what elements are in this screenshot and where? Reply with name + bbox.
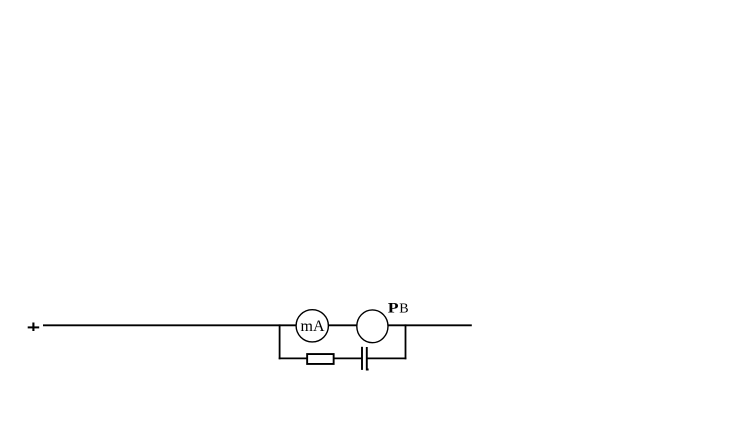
wire: from PB meter through node B to output [389, 324, 472, 326]
svg-text:B: B [399, 302, 408, 317]
resistor R [307, 354, 334, 364]
capacitor C: left plate [361, 347, 363, 370]
wire: bottom branch left segment to resistor [279, 357, 307, 359]
milliammeter mA [296, 310, 328, 342]
svg-text:P: P [388, 299, 399, 316]
label PB [388, 299, 409, 317]
terminal + (positive input) [28, 323, 40, 332]
meter PB [357, 310, 388, 343]
wire: main horizontal from + terminal through node A to mA meter [43, 324, 296, 326]
wire: bottom branch between resistor and capacitor [334, 357, 361, 359]
wire between mA meter and PB meter [329, 324, 357, 326]
wire: left branch vertical (node A down) [279, 324, 281, 359]
wire: right branch vertical (node B down) [405, 324, 407, 359]
capacitor C: right plate [367, 347, 369, 370]
wire: bottom branch right segment from capacitor to node B [367, 357, 407, 359]
svg-text:mA: mA [301, 318, 325, 335]
